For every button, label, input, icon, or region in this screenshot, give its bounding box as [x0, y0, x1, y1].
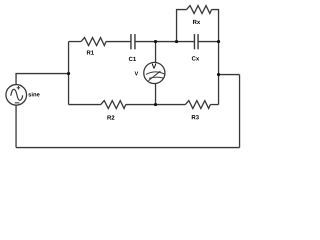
wire R3 to right column [210, 104, 218, 106]
wire voltmeter bottom stem [155, 83, 157, 104]
wire source top to left node [16, 74, 69, 85]
wire source bottom stem [15, 105, 17, 147]
wire Cx right plate to node C [198, 41, 219, 43]
label V meter face [152, 64, 157, 69]
label Rx [193, 20, 200, 24]
node A junction (155,41) [154, 40, 157, 43]
capacitor C1 [131, 34, 135, 49]
capacitor Cx [194, 34, 198, 49]
label sine [28, 92, 39, 96]
resistor R3 [185, 101, 210, 109]
wire voltmeter top stem [155, 42, 157, 63]
wire node A to node B [156, 41, 177, 43]
wire right rail down [239, 75, 241, 148]
node C junction (218,41) [217, 40, 220, 43]
node B junction (176,41) [175, 40, 178, 43]
wire R2 to center node [126, 104, 156, 106]
wire center node to R3 [156, 104, 186, 106]
label R1 [87, 50, 94, 54]
voltmeter needle [148, 71, 160, 81]
voltmeter dial upper arc [146, 72, 165, 75]
wire node B to Cx left plate [177, 41, 195, 43]
node D junction (218,74) [217, 73, 220, 76]
wire Rx loop left riser [177, 10, 187, 42]
voltmeter dial lower arc [149, 77, 163, 78]
resistor Rx [187, 6, 212, 14]
wire bottom branch left segment [69, 104, 101, 106]
wire top branch left segment [69, 41, 82, 43]
label Cx [192, 56, 199, 60]
resistor R2 [101, 101, 126, 109]
label V side [135, 72, 139, 76]
wire C1 to node A [135, 41, 156, 43]
label R3 [192, 115, 199, 119]
source sine wave [11, 89, 23, 100]
node E junction (155,104) [154, 103, 157, 106]
voltmeter U1 circle [144, 62, 165, 83]
wire bottom rail [16, 147, 240, 149]
node junction (68,73) [67, 72, 70, 75]
wire R1 to C1 [106, 41, 131, 43]
source V1 circle [6, 85, 27, 106]
wire Rx loop right riser [212, 10, 219, 42]
label R2 [107, 115, 114, 119]
wire node D to right rail [219, 74, 240, 76]
source plus sign [17, 86, 20, 89]
source minus sign [15, 102, 20, 104]
label C1 [129, 57, 136, 61]
wire right column [218, 42, 220, 105]
resistor R1 [81, 38, 106, 46]
wire left column [68, 42, 70, 105]
